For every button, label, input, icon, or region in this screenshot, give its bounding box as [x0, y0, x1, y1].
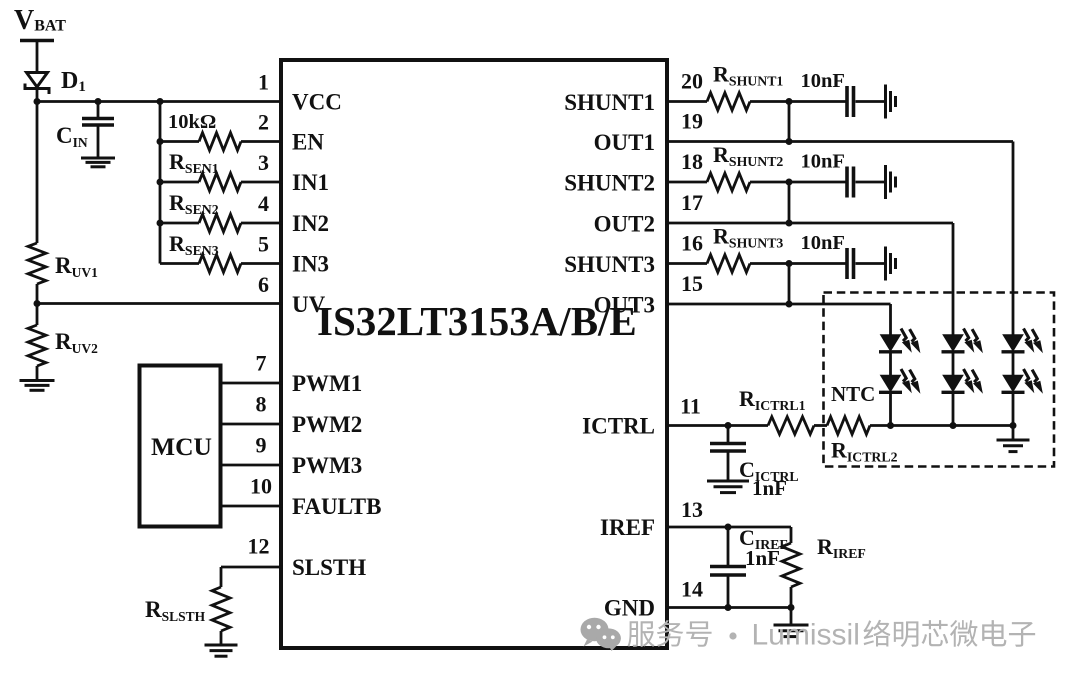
svg-text:11: 11: [680, 394, 701, 419]
svg-text:10: 10: [250, 474, 272, 499]
svg-text:VBAT: VBAT: [14, 5, 66, 36]
svg-text:RSHUNT3: RSHUNT3: [713, 224, 783, 251]
wire shunt to out row 2: [788, 182, 791, 223]
svg-text:GND: GND: [604, 596, 655, 621]
svg-text:9: 9: [256, 433, 267, 458]
svg-text:RICTRL1: RICTRL1: [739, 386, 806, 413]
diode D1 (Schottky): [27, 73, 48, 88]
LED D3 (string 1 bottom): [879, 369, 920, 394]
svg-text:15: 15: [681, 271, 703, 296]
capacitor C_IN: [97, 102, 100, 118]
junction OUT2: [786, 220, 793, 227]
wire IREF from pin 13: [665, 526, 791, 529]
svg-text:18: 18: [681, 149, 703, 174]
svg-text:D1: D1: [61, 68, 86, 95]
capacitor 10nF (2): [845, 167, 849, 198]
wire SHUNT3 stub: [665, 262, 707, 265]
ground (R_UV2): [20, 379, 55, 382]
junction shunt node 3: [786, 260, 793, 267]
junction OUT1: [786, 138, 793, 145]
svg-text:10nF: 10nF: [801, 70, 845, 92]
junction shunt node 1: [786, 98, 793, 105]
wire to cap: [750, 100, 846, 103]
wire D1 to node A: [36, 88, 39, 243]
svg-text:IN3: IN3: [292, 252, 329, 277]
svg-text:PWM1: PWM1: [292, 371, 362, 396]
wire OUT3: [665, 303, 891, 306]
junction string2 bus: [950, 422, 957, 429]
wire VCC rail: [37, 100, 283, 103]
svg-text:RSEN1: RSEN1: [169, 149, 219, 176]
LED D2 (string 1 top): [879, 329, 920, 354]
wire to pin: [241, 181, 283, 184]
svg-text:NTC: NTC: [831, 382, 875, 406]
wire SLSTH stub: [221, 566, 283, 569]
wire R_UV1 to R_UV2: [36, 284, 39, 325]
wire MCU to pin 10: [221, 505, 284, 508]
wire shunt to out row 1: [788, 102, 791, 142]
wire OUT1 vertical to LED string: [1012, 142, 1015, 337]
svg-text:3: 3: [258, 150, 269, 175]
wire to pin: [241, 262, 283, 265]
capacitor 10nF (1): [845, 86, 849, 117]
svg-text:EN: EN: [292, 130, 324, 155]
svg-text:OUT1: OUT1: [594, 130, 655, 155]
wire between R_ICTRL1 / R_ICTRL2: [814, 424, 827, 427]
svg-text:OUT2: OUT2: [594, 212, 655, 237]
MCU box: [140, 366, 221, 527]
wire row pin 3 left: [160, 181, 199, 184]
junction bus row 3: [157, 179, 164, 186]
resistor R_SEN2: [199, 214, 241, 232]
wire LED string 2: [952, 352, 955, 376]
svg-text:10kΩ: 10kΩ: [168, 111, 216, 133]
watermark WeChat icon: [581, 618, 621, 651]
wire row pin 5 left: [160, 262, 199, 265]
wire LED string 3: [1012, 352, 1015, 376]
svg-text:5: 5: [258, 232, 269, 257]
svg-text:FAULTB: FAULTB: [292, 494, 381, 519]
svg-text:RICTRL2: RICTRL2: [831, 438, 898, 465]
junction bus row 4: [157, 220, 164, 227]
wire to pin: [241, 222, 283, 225]
ground (C_ICTRL): [707, 480, 749, 483]
resistor 10kohm: [199, 133, 241, 151]
svg-text:SLSTH: SLSTH: [292, 555, 366, 580]
wire LED cathode bus: [870, 424, 1013, 427]
svg-text:RSLSTH: RSLSTH: [145, 597, 206, 624]
wire to pin: [241, 140, 283, 143]
ground (GND pin): [774, 624, 809, 627]
svg-text:UV: UV: [292, 292, 326, 317]
svg-text:19: 19: [681, 109, 703, 134]
watermark text: [627, 620, 1035, 647]
svg-text:IREF: IREF: [600, 515, 655, 540]
ground (10nF cap 2): [884, 165, 887, 199]
svg-text:CIN: CIN: [56, 123, 88, 150]
svg-text:4: 4: [258, 191, 269, 216]
svg-text:1nF: 1nF: [745, 546, 780, 570]
wire GND row pin 14: [665, 606, 791, 609]
wire bus left resistor bank: [159, 102, 162, 264]
ground (10nF cap 1): [884, 85, 887, 119]
junction C_IREF bottom: [725, 604, 732, 611]
junction bus row 2: [157, 138, 164, 145]
svg-text:RSEN3: RSEN3: [169, 231, 219, 258]
svg-text:1nF: 1nF: [752, 476, 787, 500]
junction C_IREF: [725, 524, 732, 531]
capacitor 10nF (3): [845, 248, 849, 279]
resistor R_IREF: [790, 527, 793, 543]
wire LED string 1: [889, 352, 892, 376]
op-amp U1 : IC IS32LT3153A/B/E body: [281, 60, 667, 648]
LED module dashed box: [824, 293, 1055, 467]
svg-text:IN2: IN2: [292, 211, 329, 236]
svg-text:IS32LT3153A/B/E: IS32LT3153A/B/E: [317, 298, 637, 344]
wire MCU to pin 9: [221, 464, 284, 467]
wire SHUNT1 stub: [665, 100, 707, 103]
wire OUT2 vertical to LED string: [952, 223, 955, 336]
junction OUT3: [786, 301, 793, 308]
svg-text:RIREF: RIREF: [817, 534, 866, 561]
resistor R_SLSTH: [212, 587, 230, 631]
junction string3 bus: [1010, 422, 1017, 429]
ground (10nF cap 3): [884, 247, 887, 281]
junction bus top: [157, 98, 164, 105]
capacitor C_IREF: [727, 527, 730, 565]
svg-text:14: 14: [681, 577, 703, 602]
svg-text:SHUNT3: SHUNT3: [564, 252, 655, 277]
svg-text:SHUNT2: SHUNT2: [564, 171, 655, 196]
wire OUT2: [665, 222, 953, 225]
svg-text:IN1: IN1: [292, 170, 329, 195]
junction R_IREF bottom: [788, 604, 795, 611]
svg-text:20: 20: [681, 69, 703, 94]
svg-text:PWM2: PWM2: [292, 412, 362, 437]
svg-text:8: 8: [256, 392, 267, 417]
wire to cap: [750, 262, 846, 265]
ground (C_IN): [81, 157, 115, 160]
wire OUT3 vertical to LED string: [889, 304, 892, 336]
resistor R_UV1: [28, 243, 46, 284]
LED D6 (string 3 top): [1002, 329, 1043, 354]
svg-text:RSHUNT2: RSHUNT2: [713, 142, 783, 169]
wire SHUNT2 stub: [665, 181, 707, 184]
svg-text:OUT3: OUT3: [594, 293, 655, 318]
svg-text:17: 17: [681, 190, 703, 215]
node UV junction: [34, 300, 41, 307]
svg-text:SHUNT1: SHUNT1: [564, 90, 655, 115]
svg-text:RSHUNT1: RSHUNT1: [713, 62, 783, 89]
svg-text:13: 13: [681, 497, 703, 522]
svg-text:RSEN2: RSEN2: [169, 190, 219, 217]
junction C_ICTRL: [725, 422, 732, 429]
wire row pin 2 left: [160, 140, 199, 143]
wire VBAT to D1: [36, 41, 39, 74]
ground (R_SLSTH): [205, 644, 238, 647]
svg-text:Lumissil: Lumissil: [752, 619, 860, 652]
junction string1 bus: [887, 422, 894, 429]
resistor R_SHUNT1: [707, 93, 750, 111]
svg-text:PWM3: PWM3: [292, 453, 362, 478]
ground (LED module): [997, 439, 1030, 442]
wire R_UV2 to ground: [36, 366, 39, 381]
wire ICTRL from pin 11: [665, 424, 768, 427]
wire MCU to pin 7: [221, 382, 284, 385]
junction C_IN: [95, 98, 102, 105]
svg-text:10nF: 10nF: [801, 232, 845, 254]
svg-text:2: 2: [258, 110, 269, 135]
wire to ground: [790, 608, 793, 626]
wire row pin 4 left: [160, 222, 199, 225]
resistor R_SHUNT2: [707, 173, 750, 191]
node A (VCC rail junction): [34, 98, 41, 105]
svg-text:7: 7: [256, 351, 267, 376]
svg-text:16: 16: [681, 231, 703, 256]
svg-text:6: 6: [258, 272, 269, 297]
wire bus to ground: [1012, 426, 1015, 440]
svg-text:VCC: VCC: [292, 90, 342, 115]
VBAT power rail bar: [20, 39, 54, 43]
wire to cap: [750, 181, 846, 184]
resistor R_ICTRL2 (NTC): [827, 417, 870, 435]
resistor R_SEN1: [199, 173, 241, 191]
svg-text:RUV1: RUV1: [55, 253, 98, 280]
wire UV net: [37, 302, 283, 305]
capacitor C_ICTRL: [727, 426, 730, 443]
svg-text:12: 12: [248, 534, 270, 559]
LED D4 (string 2 top): [942, 329, 983, 354]
resistor R_SHUNT3: [707, 255, 750, 273]
wire R_SLSTH to ground: [220, 631, 223, 645]
svg-text:1: 1: [258, 70, 269, 95]
resistor R_UV2: [28, 325, 46, 366]
svg-text:RUV2: RUV2: [55, 329, 98, 356]
wire OUT1: [665, 140, 1013, 143]
svg-text:MCU: MCU: [151, 432, 212, 461]
wire shunt to out row 3: [788, 264, 791, 305]
svg-text:ICTRL: ICTRL: [582, 414, 655, 439]
resistor R_SEN3: [199, 255, 241, 273]
svg-text:10nF: 10nF: [801, 151, 845, 173]
wire MCU to pin 8: [221, 423, 284, 426]
LED D7 (string 3 bottom): [1002, 369, 1043, 394]
resistor R_ICTRL1: [768, 417, 814, 435]
LED D5 (string 2 bottom): [942, 369, 983, 394]
junction shunt node 2: [786, 179, 793, 186]
